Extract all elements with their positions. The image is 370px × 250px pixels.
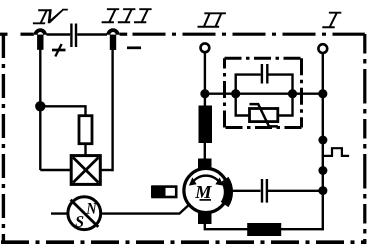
node dot right 3 bbox=[318, 186, 327, 195]
motor M1 circle bbox=[184, 168, 228, 212]
wire III down bbox=[111, 49, 113, 171]
wire X-box right to III wire bbox=[100, 169, 112, 171]
border top bbox=[0, 33, 365, 36]
wire motor to capacitor C3 bbox=[228, 190, 261, 192]
X-box element E1 bbox=[71, 156, 100, 185]
motor commutator arc bbox=[225, 180, 229, 205]
wire sender to motor bbox=[101, 205, 189, 213]
node dot sub left bbox=[231, 89, 240, 98]
brush block left bbox=[151, 186, 176, 198]
wire IV to capacitor C1 bbox=[47, 33, 71, 36]
label M bbox=[195, 186, 212, 198]
border right bbox=[363, 34, 366, 243]
fuse F1 wire bbox=[204, 105, 206, 159]
capacitor C3 plates bbox=[262, 179, 267, 203]
wire I down bbox=[322, 53, 324, 230]
terminal I bbox=[318, 44, 327, 53]
label III bbox=[102, 8, 152, 23]
varistor branch wire bbox=[236, 94, 293, 116]
node dot II bbox=[200, 89, 209, 98]
wire capacitor C1 to III bbox=[77, 33, 107, 36]
wire capacitor C3 to I line bbox=[268, 190, 323, 192]
label I bbox=[322, 12, 341, 29]
varistor R2 bbox=[250, 109, 278, 122]
motor reversing arrow bbox=[192, 176, 221, 184]
choke L1 bbox=[247, 223, 281, 236]
sender diagonal bbox=[71, 200, 99, 227]
node dot right 2 bbox=[318, 166, 327, 175]
wire motor bottom to bus bbox=[205, 223, 323, 229]
node junction dot left bbox=[35, 101, 45, 111]
minus sign bbox=[127, 46, 141, 49]
bus wire bbox=[205, 92, 323, 94]
terminal II bbox=[201, 43, 210, 52]
node dot right 1 bbox=[318, 136, 327, 145]
resistor R1 bbox=[79, 116, 92, 144]
fuse F1 bbox=[199, 106, 213, 144]
capacitor C2 plates bbox=[262, 64, 267, 84]
capacitor C1 plates bbox=[71, 24, 76, 48]
motor bottom brush bbox=[198, 212, 212, 225]
terminal IV bbox=[34, 28, 47, 50]
sender stub wire bbox=[51, 212, 68, 214]
wire IV down bbox=[39, 49, 41, 170]
capacitor C2 branch wire bbox=[236, 75, 293, 94]
label S bbox=[75, 216, 83, 227]
node dot I bus bbox=[318, 89, 327, 98]
wire II down to bus bbox=[204, 52, 206, 105]
node dot sub right bbox=[288, 89, 297, 98]
wire resistor R1 to X-box bbox=[84, 144, 86, 156]
label N bbox=[86, 203, 97, 214]
switch step symbol bbox=[323, 148, 349, 156]
border left bbox=[2, 34, 5, 243]
sender G1 circle bbox=[68, 197, 101, 230]
wire node to resistor R1 bbox=[40, 106, 85, 115]
suppression box dash-dot bbox=[225, 58, 302, 127]
varistor diagonal bbox=[250, 104, 278, 126]
label M underline bbox=[200, 199, 212, 201]
wire node down to X-box left bbox=[40, 169, 71, 171]
terminal III bbox=[106, 28, 119, 50]
motor top brush bbox=[198, 159, 212, 171]
border bottom bbox=[1, 240, 366, 244]
label IV bbox=[33, 9, 68, 25]
plus sign bbox=[52, 44, 66, 57]
label II bbox=[198, 12, 226, 27]
